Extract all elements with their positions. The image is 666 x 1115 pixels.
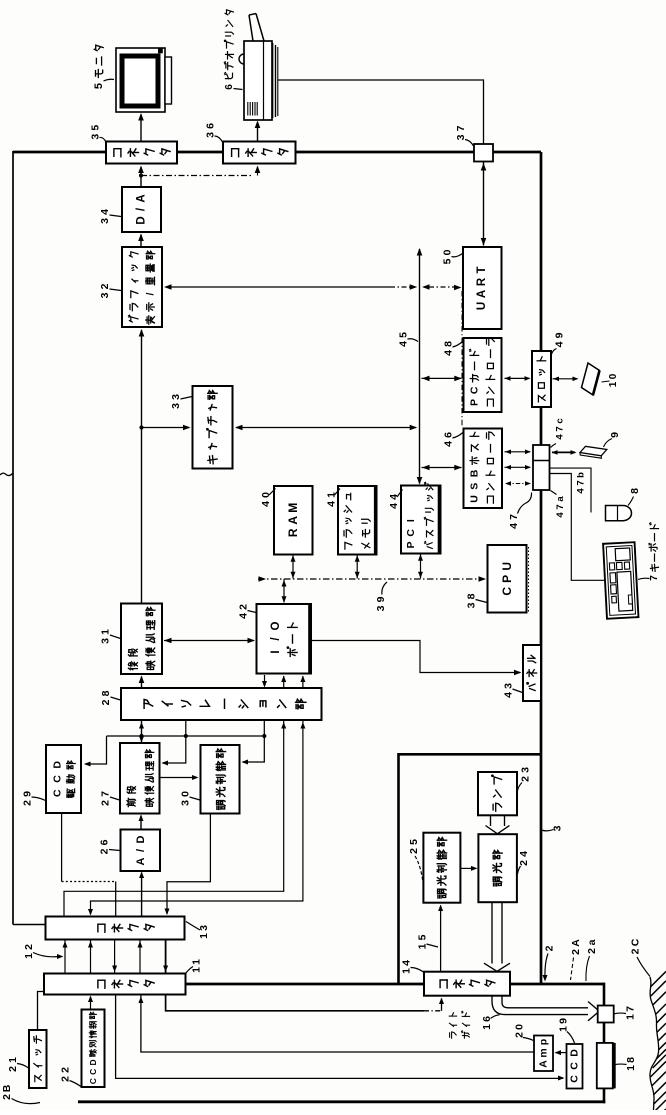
svg-text:I: I [405,519,417,522]
svg-text:1: 1 [198,933,210,939]
svg-text:7: 7 [555,504,566,509]
svg-text:1: 1 [625,1065,637,1071]
svg-text:7: 7 [576,480,587,485]
svg-text:2: 2 [630,948,642,954]
svg-text:C: C [88,1078,98,1084]
svg-text:1: 1 [481,1024,493,1030]
svg-text:9: 9 [375,596,387,602]
svg-text:1: 1 [191,967,203,973]
svg-text:2: 2 [586,948,598,954]
svg-text:0: 0 [180,791,192,797]
svg-text:/: / [135,849,147,852]
svg-text:3: 3 [205,132,217,138]
svg-text:D: D [569,1049,581,1057]
svg-text:A: A [570,939,582,947]
svg-text:2: 2 [100,699,112,705]
svg-text:ボ: ボ [647,542,660,552]
svg-text:4: 4 [555,512,566,518]
svg-text:7: 7 [649,575,660,581]
svg-text:6: 6 [99,839,111,845]
svg-text:A: A [476,290,488,298]
svg-text:M: M [286,503,300,513]
svg-text:7: 7 [625,1006,637,1012]
svg-text:1: 1 [558,1026,570,1032]
svg-text:2: 2 [23,944,35,950]
svg-text:0: 0 [514,1024,526,1030]
svg-text:2: 2 [544,945,556,951]
svg-text:B: B [469,469,481,477]
svg-text:4: 4 [326,501,338,507]
svg-text:2: 2 [99,848,111,854]
svg-text:4: 4 [443,441,455,447]
svg-text:p: p [538,1039,550,1045]
svg-text:0: 0 [608,373,619,379]
svg-text:2: 2 [60,1067,72,1073]
svg-text:3: 3 [375,605,387,611]
svg-text:1: 1 [23,953,35,959]
svg-text:U: U [469,495,481,503]
svg-text:D: D [88,1059,98,1065]
svg-text:C: C [569,1062,581,1070]
svg-text:9: 9 [609,432,621,438]
svg-text:4: 4 [260,501,272,507]
svg-text:A: A [136,194,148,202]
svg-text:0: 0 [260,492,272,498]
svg-text:R: R [476,277,488,286]
svg-text:4: 4 [555,434,566,440]
svg-text:5: 5 [408,839,420,845]
svg-text:1: 1 [608,381,619,387]
svg-text:4: 4 [388,503,400,509]
svg-text:8: 8 [625,1057,637,1063]
svg-text:4: 4 [401,960,413,966]
svg-text:2: 2 [22,800,34,806]
svg-text:9: 9 [558,1018,570,1024]
svg-text:3: 3 [90,134,102,140]
svg-text:2: 2 [99,283,111,289]
svg-text:6: 6 [481,1016,493,1022]
svg-text:1: 1 [191,959,203,965]
svg-text:C: C [52,775,64,783]
svg-text:9: 9 [554,332,566,338]
svg-text:4: 4 [508,523,520,529]
svg-text:3: 3 [170,394,182,400]
svg-text:3: 3 [99,218,111,224]
svg-text:a: a [586,939,598,945]
svg-text:2: 2 [7,1066,19,1072]
svg-text:8: 8 [466,593,478,599]
svg-text:4: 4 [398,341,410,347]
svg-text:4: 4 [238,613,250,619]
svg-text:6: 6 [443,432,455,438]
svg-text:7: 7 [455,125,467,131]
svg-text:/: / [145,292,157,295]
svg-text:C: C [630,938,642,946]
svg-text:7: 7 [508,514,520,520]
svg-text:3: 3 [100,638,112,644]
svg-text:P: P [469,399,481,406]
svg-text:A: A [286,516,300,525]
svg-text:5: 5 [442,258,454,264]
svg-text:6: 6 [224,84,235,90]
svg-text:4: 4 [554,341,566,347]
svg-text:8: 8 [100,690,112,696]
svg-text:3: 3 [180,800,192,806]
svg-text:A: A [538,1060,550,1068]
svg-text:c: c [555,418,566,423]
svg-text:C: C [88,1069,98,1075]
svg-text:0: 0 [442,249,454,255]
svg-text:m: m [538,1048,550,1057]
svg-text:4: 4 [503,692,515,698]
svg-text:5: 5 [398,332,410,338]
svg-text:C: C [500,587,514,596]
svg-text:P: P [500,575,514,583]
svg-text:C: C [52,789,64,797]
svg-text:3: 3 [503,683,515,689]
svg-text:D: D [135,835,147,843]
svg-text:5: 5 [93,83,105,89]
svg-text:3: 3 [552,825,564,831]
svg-text:b: b [576,472,587,478]
svg-text:4: 4 [576,488,587,494]
svg-text:8: 8 [629,488,641,494]
svg-text:2: 2 [518,860,530,866]
svg-text:2: 2 [408,848,420,854]
svg-text:C: C [405,529,417,537]
svg-text:1: 1 [401,968,413,974]
svg-text:T: T [476,266,488,273]
svg-text:O: O [270,621,282,630]
svg-text:a: a [555,496,566,502]
svg-text:7: 7 [100,791,112,797]
svg-text:U: U [476,302,488,310]
svg-text:2: 2 [520,776,532,782]
svg-text:S: S [469,483,481,490]
svg-text:7: 7 [555,426,566,431]
svg-text:2: 2 [570,949,582,955]
svg-text:R: R [286,528,300,537]
svg-text:I: I [270,650,282,653]
svg-text:2: 2 [238,604,250,610]
svg-text:8: 8 [443,341,455,347]
svg-text:6: 6 [205,123,217,129]
svg-text:2: 2 [1,1094,13,1100]
svg-text:B: B [1,1084,13,1092]
svg-text:3: 3 [99,292,111,298]
svg-text:P: P [405,541,417,548]
svg-text:1: 1 [625,1014,637,1020]
svg-text:3: 3 [170,403,182,409]
svg-text:4: 4 [518,851,530,857]
svg-text:A: A [135,857,147,865]
svg-text:C: C [569,1075,581,1083]
svg-text:D: D [52,761,64,769]
svg-text:9: 9 [22,791,34,797]
svg-text:2: 2 [100,800,112,806]
svg-text:D: D [136,216,148,224]
svg-text:1: 1 [100,629,112,635]
svg-text:3: 3 [520,767,532,773]
svg-text:4: 4 [443,350,455,356]
svg-text:5: 5 [90,125,102,131]
svg-text:C: C [469,386,481,394]
svg-text:1: 1 [7,1057,19,1063]
svg-text:4: 4 [99,209,111,215]
svg-text:3: 3 [466,602,478,608]
svg-text:5: 5 [417,934,429,940]
svg-text:U: U [500,562,514,571]
